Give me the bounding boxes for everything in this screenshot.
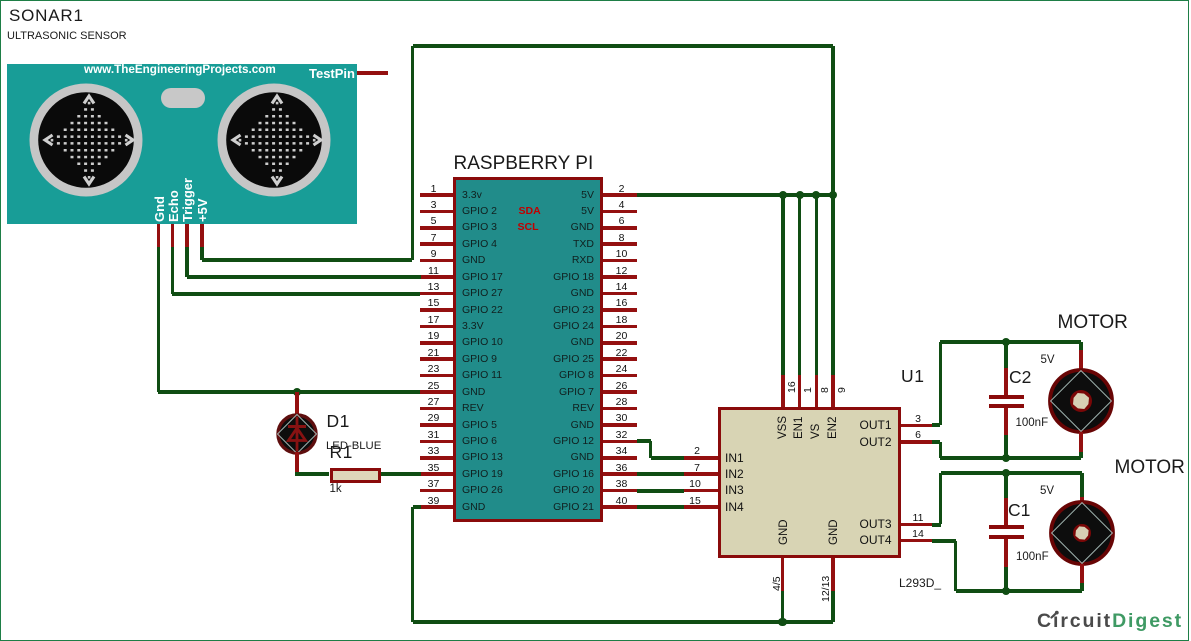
U1 pin number 16 [786,381,799,393]
RPi pin number 33 [428,445,440,458]
RPi pin 38 stub [603,489,637,493]
U1 pin label OUT2 [592,435,892,450]
RPi pin number 18 [616,314,628,327]
RPi pin 2 stub [603,193,637,197]
U1 pin 1 wire from 5V rail [798,195,801,375]
RPi pin number 20 [616,330,628,343]
wire OUT1 to riser [932,423,940,427]
RPi pin label GND (pin 39) [462,501,485,514]
RPi pin 27 stub [420,407,453,411]
wire OUT3 riser up [939,473,942,524]
LED D1 anode stub [295,392,299,416]
RPi pin label GPIO 5 (pin 29) [462,419,497,432]
U1 pin label EN1 [792,416,806,438]
wire R1 to pin 35 [381,472,421,476]
U1 pin 16 stub [781,375,785,407]
label 5V (motor1) [1041,353,1055,367]
RPi pin number 10 [616,248,628,261]
U1 pin number 14 [912,528,924,541]
RPi pin number 38 [616,478,628,491]
RPi pin number 40 [616,495,628,508]
RPi pin number 12 [616,265,628,278]
RPi pin number 35 [428,462,440,475]
wire GND riser vertical [411,507,414,622]
sonar pin stub Trigger [185,224,189,247]
U1 pin 9 stub [831,375,835,407]
wire Trigger to pin 11 [187,275,421,279]
RPi pin number 23 [428,363,440,376]
RPi pin number 32 [616,429,628,442]
RPi pin number 15 [428,297,440,310]
U1 pin 8 stub [815,375,819,407]
RPi pin 32 stub [603,440,637,444]
RPi pin 11 stub [420,275,453,279]
wire pin32 horizontal [637,439,651,443]
RPi pin label GPIO 9 (pin 21) [462,353,497,366]
RPi pin number 14 [616,281,628,294]
U1 pin number 12/13 [820,576,833,602]
motor1 bottom lead [1079,432,1083,452]
wire motor2 bottom rail [956,589,1083,593]
wire Gnd to pin 25 [158,390,420,394]
RPi pin label GND (pin 34) [294,451,594,464]
RPi pin label GPIO 3 (pin 5) [462,221,497,234]
RPi pin label GPIO 24 (pin 18) [294,320,594,333]
RPi pin 40 stub [603,505,637,509]
motor2 top lead [1080,497,1084,502]
RPi pin number 27 [428,396,440,409]
RPi pin number 17 [428,314,440,327]
RPi pin label 3.3v (pin 1) [462,189,482,202]
RPi pin label GPIO 25 (pin 22) [294,353,594,366]
RPi pin 25 stub [420,390,453,394]
RPi pin label GPIO 27 (pin 13) [462,287,503,300]
label MOTOR (bottom) [1115,456,1185,480]
U1 pin label EN2 [826,416,840,438]
RPi pin label GPIO 6 (pin 31) [462,435,497,448]
RPi pin number 16 [616,297,628,310]
RPi pin 39 stub [420,505,453,509]
pin label Trigger [180,178,196,222]
RPi pin number 29 [428,412,440,425]
RPi pin 33 stub [420,456,453,460]
label 1k [330,482,342,496]
wire Gnd vertical [157,247,160,393]
sonar pin stub +5V [200,224,204,247]
RPi pin label GPIO 23 (pin 16) [294,304,594,317]
U1 pin label OUT3 [592,517,892,532]
label LED-BLUE [326,439,381,453]
sonar left transducer [28,82,144,198]
junction C1 bottom [1002,587,1010,595]
wire OUT2 down [939,442,942,458]
motor2 bottom lead [1080,564,1084,584]
wire motor2 bottom lead (green) [1080,583,1083,591]
U1 pin stub IN1 [684,456,718,460]
label ULTRASONIC SENSOR [7,30,127,44]
U1 pin 8 wire from 5V rail [815,195,818,375]
wire GND bottom horizontal [413,620,834,624]
RPi pin label GPIO 4 (pin 7) [462,238,497,251]
RPi pin number 6 [619,215,625,228]
wire pin2 5V horizontal [637,193,834,197]
RPi pin label GPIO 7 (pin 26) [294,386,594,399]
RPi pin label TXD (pin 8) [294,238,594,251]
RPi pin 22 stub [603,357,637,361]
RPi pin number 39 [428,495,440,508]
resistor R1 [330,468,382,483]
wire to IN1 [651,456,684,460]
U1 pin number 9 [836,387,849,393]
RPi pin number 8 [619,232,625,245]
wire Trigger vertical [185,247,188,278]
RPi pin 14 stub [603,292,637,296]
label RASPBERRY PI [454,152,594,176]
RPi pin 1 stub [420,193,453,197]
RPi pin label GND (pin 30) [294,419,594,432]
RPi pin 4 stub [603,210,637,214]
junction C2 top [1002,338,1010,346]
junction 5V/EN2 [829,191,837,199]
U1 pin stub IN3 [684,489,718,493]
RPi pin number 34 [616,445,628,458]
wire OUT2 to dropper [932,440,940,444]
junction GND/LED branch [293,388,301,396]
label SDA (red) [519,205,541,218]
U1 pin label VSS [776,415,790,438]
label net 10 [689,478,701,491]
RPi pin number 37 [428,478,440,491]
U1 pin number 11 [913,512,924,525]
junction C2 bottom [1002,454,1010,462]
wire motor2 top lead (green) [1080,473,1083,497]
U1 pin stub OUT2 [901,440,933,444]
label net 15 [689,495,701,508]
motor1 top lead [1079,350,1083,370]
RPi pin number 19 [428,330,440,343]
RPi pin number 31 [428,429,440,442]
RPi pin label GND (pin 14) [294,287,594,300]
RPi pin number 2 [619,183,625,196]
junction 5V/EN1 [796,191,804,199]
RPi pin label GND (pin 6) [294,221,594,234]
wire 5V down to pin2 line [831,46,834,196]
RPi pin label GND (pin 25) [462,386,485,399]
label SONAR1 [9,5,84,26]
RPi pin 35 stub [420,472,453,476]
pin label +5V [195,199,211,223]
RPi pin 17 stub [420,325,453,329]
U1 pin label IN4 [725,500,744,515]
wire C2 top lead (green) [1004,342,1007,368]
junction 5V/VS [812,191,820,199]
U1 pin stub OUT3 [901,523,933,527]
wire Echo vertical [171,247,174,294]
U1 pin stub IN2 [684,472,718,476]
motor M2 [1048,499,1116,567]
RPi pin 24 stub [603,374,637,378]
RPi pin 9 stub [420,259,453,263]
U1 pin label IN2 [725,467,744,482]
capacitor C1 bottom lead [1004,539,1008,568]
RPi pin 36 stub [603,472,637,476]
RPi pin 3 stub [420,210,453,214]
IC RASPBERRY PI body [453,177,604,522]
wire Echo to pin 13 [172,292,420,296]
U1 pin 16 wire from 5V rail [781,195,784,375]
RPi pin 7 stub [420,242,453,246]
wire C1 top lead (green) [1004,473,1007,498]
U1 pin label IN1 [725,451,744,466]
wire to IN2 [637,472,684,476]
RPi pin number 21 [428,347,440,360]
RPi pin 5 stub [420,226,453,230]
RPi pin number 25 [428,380,440,393]
capacitor C1 plates [989,525,1024,529]
RPi pin 8 stub [603,242,637,246]
wire motor1 bottom lead (green) [1079,452,1082,458]
RPi pin 18 stub [603,325,637,329]
capacitor C2 plates [989,395,1024,399]
capacitor C1 top lead [1004,498,1008,526]
junction GND/4-5 [778,618,786,626]
U1 pin number 6 [915,429,921,442]
wire OUT4 to dropper [932,539,956,543]
sonar crystal [161,88,205,108]
RPi pin 30 stub [603,423,637,427]
RPi pin label GPIO 12 (pin 32) [294,435,594,448]
label MOTOR (top) [1058,311,1128,335]
U1 pin number 3 [915,413,921,426]
U1 pin number 8 [819,387,832,393]
wire C2 bottom lead (green) [1004,435,1007,458]
U1 GND stub 4/5 [781,558,785,591]
RPi pin 19 stub [420,341,453,345]
U1 pin label VS [809,423,823,438]
wire motor1 top rail [940,340,1081,344]
RPi pin number 26 [616,380,628,393]
wire OUT1 riser up [939,342,942,425]
RPi pin label GPIO 10 (pin 19) [462,336,503,349]
U1 GND label (right) [827,519,841,545]
RPi pin label GPIO 19 (pin 35) [462,468,503,481]
U1 pin label OUT4 [592,533,892,548]
RPi pin number 13 [428,281,440,294]
RPi pin 20 stub [603,341,637,345]
TestPin stub [357,71,388,75]
logo CircuitDigest [1037,609,1183,633]
wire motor1 top lead (green) [1079,342,1082,350]
label 5V (motor2) [1040,484,1054,498]
label SCL (red) [518,221,539,234]
RPi pin label GND (pin 20) [294,336,594,349]
RPi pin 13 stub [420,292,453,296]
RPi pin number 28 [616,396,628,409]
RPi pin label 5V (pin 4) [294,205,594,218]
U1 GND stub 12/13 [831,558,835,591]
pin label Gnd [152,196,168,222]
RPi pin 12 stub [603,275,637,279]
label R1 [330,442,353,464]
wire OUT3 to riser [932,523,941,527]
IC U1 L293D body [718,407,901,558]
RPi pin label GPIO 13 (pin 33) [462,451,503,464]
RPi pin label GPIO 18 (pin 12) [294,271,594,284]
wire 5V riser vertical [411,46,414,261]
wire 5V top horizontal [413,44,834,48]
label U1 [901,366,925,388]
U1 pin number 4/5 [771,576,784,591]
RPi pin number 24 [616,363,628,376]
wire pin39 to GND riser [413,505,421,509]
RPi pin number 7 [431,232,437,245]
RPi pin label GPIO 11 (pin 23) [462,369,502,382]
label L293D_ [899,576,941,591]
wire C1 bottom lead (green) [1004,567,1007,591]
RPi pin label REV (pin 28) [294,402,594,415]
U1 pin stub OUT4 [901,539,933,543]
U1 pin label IN3 [725,483,744,498]
RPi pin 29 stub [420,423,453,427]
RPi pin label GPIO 17 (pin 11) [462,271,503,284]
label D1 [327,411,350,433]
RPi pin 31 stub [420,440,453,444]
RPi pin number 5 [431,215,437,228]
RPi pin 16 stub [603,308,637,312]
U1 pin 1 stub [798,375,802,407]
RPi pin number 30 [616,412,628,425]
U1 pin number 1 [802,387,815,393]
RPi pin 6 stub [603,226,637,230]
RPi pin label RXD (pin 10) [294,254,594,267]
LED D1 cathode stub [295,452,299,474]
RPi pin number 11 [428,265,439,278]
sonar pin stub Echo [171,224,175,247]
RPi pin label GPIO 22 (pin 15) [462,304,503,317]
ultrasonic sensor SONAR1 body [7,64,357,224]
RPi pin label GPIO 20 (pin 38) [294,484,594,497]
junction C1 top [1002,469,1010,477]
capacitor C2 bottom lead [1004,408,1008,435]
RPi pin 28 stub [603,407,637,411]
sonar pin stub Gnd [157,224,161,247]
wire to IN4 [637,505,684,509]
RPi pin 15 stub [420,308,453,312]
junction 5V/VSS [779,191,787,199]
RPi pin number 4 [619,199,625,212]
RPi pin number 1 [431,183,437,196]
U1 pin 9 wire from 5V rail [831,195,834,375]
wire LED to R1 [297,472,330,476]
U1 pin label OUT1 [592,418,892,433]
RPi pin 10 stub [603,259,637,263]
wire +5V horizontal to 5V rail riser [202,258,413,262]
label net 7 [694,462,700,475]
RPi pin label GPIO 8 (pin 24) [294,369,594,382]
RPi pin label GPIO 26 (pin 37) [462,484,503,497]
LED D1 [276,413,318,455]
wire GND up to pin 12/13 [831,591,834,622]
RPi pin number 36 [616,462,628,475]
wire GND up to pin 4/5 [781,591,784,622]
U1 GND label (left) [777,519,791,545]
label www.TheEngineeringProjects.com [84,63,276,78]
label TestPin [309,66,355,82]
RPi pin label GND (pin 9) [462,254,485,267]
label C1 [1008,500,1030,522]
RPi pin 34 stub [603,456,637,460]
pin label Echo [166,190,182,222]
RPi pin label 5V (pin 2) [294,189,594,202]
RPi pin number 3 [431,199,437,212]
RPi pin 21 stub [420,357,453,361]
sonar right transducer [216,82,332,198]
wire +5V vertical from sonar [200,247,203,261]
RPi pin 37 stub [420,489,453,493]
label 100nF (C1) [1016,550,1049,564]
U1 pin stub IN4 [684,505,718,509]
label net 2 [694,445,700,458]
RPi pin label REV (pin 27) [462,402,484,415]
wire pin32 jog down [649,441,652,457]
U1 pin stub OUT1 [901,424,933,428]
RPi pin 23 stub [420,374,453,378]
RPi pin label GPIO 21 (pin 40) [294,501,594,514]
RPi pin 26 stub [603,390,637,394]
RPi pin label GPIO 16 (pin 36) [294,468,594,481]
RPi pin number 22 [616,347,628,360]
RPi pin label 3.3V (pin 17) [462,320,484,333]
wire motor1 bottom rail [940,456,1081,460]
label C2 [1009,367,1031,389]
wire to IN3 [637,489,684,493]
RPi pin label GPIO 2 (pin 3) [462,205,497,218]
capacitor C2 top lead [1004,368,1008,395]
wire motor2 top rail [941,471,1082,475]
wire OUT4 down [954,541,957,591]
RPi pin number 9 [431,248,437,261]
label 100nF (C2) [1016,416,1049,430]
motor M1 [1047,367,1115,435]
